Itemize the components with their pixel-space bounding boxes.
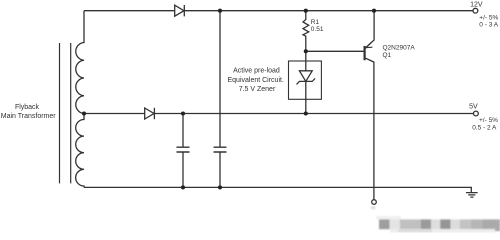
capacitor C1 plates xyxy=(177,147,190,152)
wire bottom rail xyxy=(84,187,471,192)
transformer core line left xyxy=(59,43,61,183)
transformer T1 primary-side winding xyxy=(76,11,84,114)
svg-text:12V: 12V xyxy=(470,1,483,8)
svg-text:+/- 5%: +/- 5% xyxy=(479,117,498,124)
svg-text:Flyback: Flyback xyxy=(15,104,40,111)
watermark blur blocks xyxy=(371,206,500,232)
node 5V-zener xyxy=(304,111,308,115)
open terminals xyxy=(372,8,479,204)
transistor Q1 base bar xyxy=(364,46,366,60)
wire base of Q1 xyxy=(306,50,364,52)
diode D1 (12V rectifier) xyxy=(175,5,184,16)
svg-text:Q2N2907A: Q2N2907A xyxy=(383,45,416,52)
terminal 5V xyxy=(474,111,479,116)
node bottom-C1 xyxy=(181,185,185,189)
node top-Q1 emitter xyxy=(372,9,376,13)
zener cathode bar xyxy=(297,78,316,84)
node bottom-C2 xyxy=(218,185,222,189)
node transformer tap xyxy=(82,111,86,115)
capacitor C2 plates xyxy=(214,147,227,152)
ground symbol xyxy=(466,193,478,198)
svg-text:5V: 5V xyxy=(469,104,478,111)
transistor Q1 emitter arrow xyxy=(366,43,373,48)
transistor Q1 collector xyxy=(366,58,374,200)
svg-text:Q1: Q1 xyxy=(383,52,392,59)
svg-text:Active pre-load: Active pre-load xyxy=(233,67,280,74)
svg-text:0.51: 0.51 xyxy=(311,26,324,33)
node R1/base/zener xyxy=(304,49,308,53)
preload box xyxy=(289,61,322,99)
diode D2 (5V rectifier) xyxy=(145,108,154,119)
diode D2 cathode bar xyxy=(153,108,155,119)
terminal 12V xyxy=(473,8,478,13)
wire zener branch xyxy=(305,51,307,113)
transformer T1 secondary-side winding xyxy=(76,114,84,188)
svg-text:0 - 3 A: 0 - 3 A xyxy=(479,22,498,29)
wire 5V rail xyxy=(84,113,474,115)
svg-text:0.5 - 2 A: 0.5 - 2 A xyxy=(472,124,497,131)
diode D1 cathode bar xyxy=(183,5,185,16)
node top-R1 xyxy=(304,9,308,13)
transistor Q1 emitter xyxy=(365,11,374,49)
node top-C2 xyxy=(218,9,222,13)
resistor R1 xyxy=(303,11,309,52)
wire top rail xyxy=(84,10,473,12)
transformer core line right xyxy=(70,43,72,183)
zener diode D3 xyxy=(299,71,312,82)
node 5V-C1 xyxy=(181,111,185,115)
svg-text:Main Transformer: Main Transformer xyxy=(1,113,57,120)
svg-text:Equivalent Circuit.: Equivalent Circuit. xyxy=(227,77,283,84)
terminal collector probe xyxy=(372,200,377,205)
svg-text:7.5 V Zener: 7.5 V Zener xyxy=(239,86,276,93)
capacitor C2 wires xyxy=(219,11,221,188)
capacitor C1 wires xyxy=(182,114,184,188)
svg-text:R1: R1 xyxy=(311,19,320,26)
speck xyxy=(371,206,376,209)
